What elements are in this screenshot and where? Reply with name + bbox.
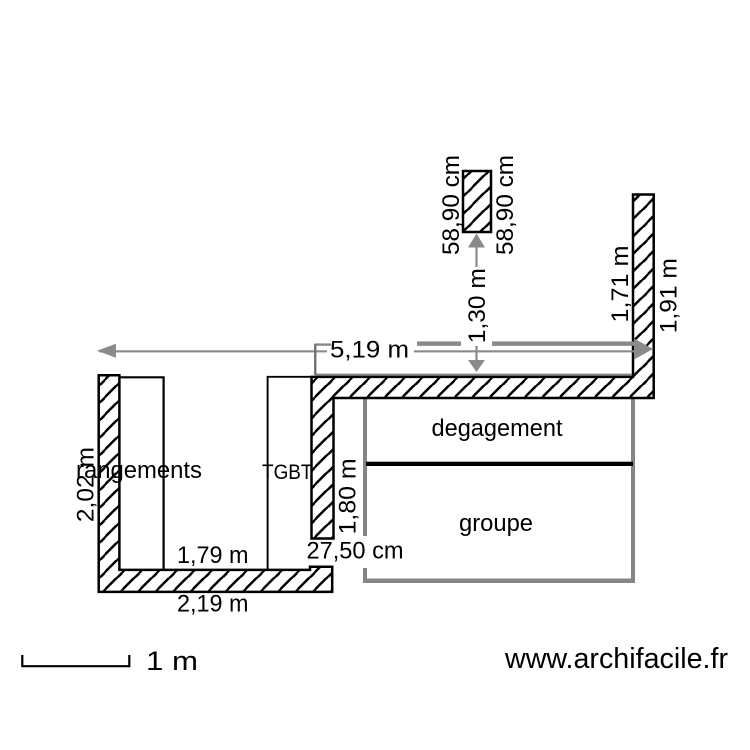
svg-text:groupe: groupe (459, 510, 533, 537)
room outline (gray) right edge (631, 377, 635, 583)
svg-text:58,90 cm: 58,90 cm (492, 155, 519, 255)
svg-text:2,19 m: 2,19 m (177, 591, 249, 618)
svg-text:1,71 m: 1,71 m (607, 246, 634, 323)
divider line degagement/groupe (366, 462, 633, 466)
dim right arrowhead (634, 339, 653, 360)
svg-text:degagement: degagement (432, 415, 563, 442)
svg-text:58,90 cm: 58,90 cm (438, 155, 465, 255)
dim thick bar segment 3 (492, 341, 637, 346)
dim 1,30 m bottom arrowhead (468, 360, 485, 372)
dim tick vertical at x315 (314, 344, 316, 375)
svg-text:1,30 m: 1,30 m (464, 268, 491, 343)
dim thick bar segment 2 (417, 341, 461, 346)
dim 5,19 m thin line right segment (414, 350, 640, 352)
svg-text:1,91 m: 1,91 m (656, 258, 683, 333)
svg-text:5,19 m: 5,19 m (330, 337, 409, 364)
dim 1,30 m shaft upper (475, 248, 477, 268)
svg-text:1,79 m: 1,79 m (177, 542, 249, 569)
room outline (gray) bottom edge (363, 579, 635, 584)
svg-text:TGBT: TGBT (262, 461, 313, 484)
scale bar (22, 655, 129, 666)
dim left arrowhead (97, 344, 116, 358)
dim 1,30 m vertical: top arrowhead (468, 234, 485, 248)
svg-text:27,50 cm: 27,50 cm (307, 538, 404, 565)
gray sliver line along wall top (315, 374, 632, 376)
svg-text:rangements: rangements (76, 457, 202, 484)
room outline (gray) left edge lower segment (363, 568, 367, 583)
room outline (gray, groupe/degagement) left edge upper segment (363, 377, 367, 536)
dim 5,19 m thin line left segment (99, 350, 327, 352)
wall pillar (58,90 cm) (463, 171, 491, 232)
dim thick bar segment 1 (314, 343, 331, 345)
svg-text:www.archifacile.fr: www.archifacile.fr (504, 643, 728, 675)
wall union: top wall + right wall + TGBT vertical wall (hatched) (312, 195, 654, 539)
dim 1,30 m shaft lower (475, 346, 477, 360)
svg-text:1 m: 1 m (146, 646, 198, 676)
wall union: left wall + bottom wall (hatched, U-left part) (99, 375, 333, 592)
svg-text:1,80 m: 1,80 m (334, 458, 361, 534)
TGBT room rect (white, thin border) (268, 377, 311, 570)
closet rect (rangements, white, thin border) (119, 377, 163, 571)
